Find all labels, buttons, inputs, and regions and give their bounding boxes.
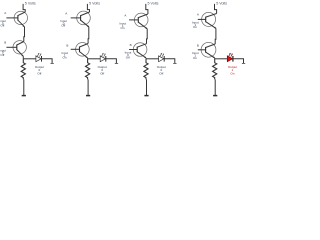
LED D3 [159,53,165,62]
wire: LED cathode to ground (cell 3) [164,59,175,63]
input label A (cell 4) [192,13,199,29]
wire: Q1A emitter to Q1B collector [23,27,26,42]
wire: Q2A emitter to Q2B collector [87,27,90,44]
input label B (cell 1) [0,41,6,57]
5V supply wire (cell 3) [146,4,148,14]
input label B (cell 4) [192,43,199,59]
input label A (cell 3) [119,14,126,30]
svg-text:5 Volts: 5 Volts [216,1,227,5]
wire: Q4A emitter to Q4B collector [214,28,217,44]
transistor Q4B [201,42,216,58]
svg-text:B: B [66,43,68,47]
ground (LED, cell 3) [173,63,176,65]
wire: node to LED anode (cell 4) [215,58,228,60]
output label (cell 4) [228,65,237,76]
5V supply wire (cell 4) [215,4,217,14]
resistor R4 [213,59,217,80]
svg-text:On: On [193,56,197,60]
resistor R2 [86,59,90,80]
svg-text:On: On [120,26,124,30]
LED D4 [227,53,233,62]
wire: input B to base of Q2B [71,48,80,50]
wire: Q2B emitter to output node (cell 2) [87,57,89,60]
svg-text:5 Volts: 5 Volts [89,1,100,5]
resistor R1 [21,59,25,80]
svg-text:A: A [197,13,199,17]
svg-text:B: B [130,43,132,47]
wire: node to LED anode (cell 3) [146,58,159,60]
wire: Q3A emitter to Q3B collector [146,29,149,44]
wire: resistor to ground (cell 2) [87,79,89,95]
wire: input A to base of Q4A [198,18,206,20]
wire: input A to base of Q3A [129,19,138,21]
output label (cell 3) [157,65,166,76]
wire: resistor to ground (cell 1) [23,79,25,95]
output label (cell 1) [35,65,44,76]
svg-text:Off: Off [61,24,65,28]
svg-text:5 Volts: 5 Volts [25,1,36,5]
ground (LED, cell 1) [51,63,54,65]
wire: input A to base of Q2A [71,17,81,19]
svg-text:On: On [230,71,234,75]
wire: node to LED anode (cell 2) [88,58,101,60]
wire: Q4B emitter to output node (cell 4) [214,57,216,60]
wire: input B to base of Q3B [129,49,137,51]
svg-text:B: B [4,41,6,45]
svg-text:Off: Off [0,24,4,28]
wire: node to LED anode (cell 1) [23,58,36,60]
wire: LED cathode to ground (cell 1) [42,59,53,63]
transistor Q3B [133,43,147,58]
svg-text:A: A [124,14,126,18]
ground (LED, cell 4) [242,63,245,65]
wire: input B to base of Q1B [6,46,16,48]
5V supply wire (cell 1) [23,4,25,12]
wire: input A to base of Q1A [6,17,18,19]
5V supply wire (cell 2) [87,4,89,12]
ground (resistor, cell 2) [86,95,90,97]
svg-text:A: A [65,11,67,15]
LED D2 [100,53,106,62]
svg-text:On: On [62,56,66,60]
svg-text:B: B [197,43,199,47]
transistor Q4A [202,12,217,28]
ground (resistor, cell 1) [22,95,26,97]
svg-text:On: On [193,25,197,29]
svg-text:Off: Off [126,55,130,59]
svg-text:5 Volts: 5 Volts [148,1,159,5]
wire: resistor to ground (cell 4) [214,79,216,95]
LED D1 [36,53,42,62]
input label A (cell 2) [60,11,67,27]
ground (resistor, cell 3) [144,95,148,97]
transistor Q1A [14,11,27,27]
wire: Q1B emitter to output node (cell 1) [22,56,24,59]
wire: input B to base of Q4B [198,49,206,51]
ground (resistor, cell 4) [213,95,217,97]
svg-text:Off: Off [0,53,4,57]
transistor Q2B [76,43,90,59]
wire: resistor to ground (cell 3) [146,79,148,95]
svg-text:Off: Off [37,71,41,75]
svg-text:Off: Off [100,71,104,75]
svg-text:Off: Off [159,71,163,75]
input label B (cell 2) [61,43,68,59]
output label (cell 2) [98,65,107,76]
wire: Q3B emitter to output node (cell 3) [145,57,147,60]
resistor R3 [144,59,148,80]
transistor Q3A [134,13,148,29]
input label B (cell 3) [125,43,132,59]
transistor Q1B [13,41,26,57]
wire: LED cathode to ground (cell 4) [233,59,244,63]
svg-text:A: A [4,11,6,15]
wire: LED cathode to ground (cell 2) [106,59,117,63]
transistor Q2A [77,11,91,27]
ground (LED, cell 2) [115,63,118,65]
input label A (cell 1) [0,11,6,27]
